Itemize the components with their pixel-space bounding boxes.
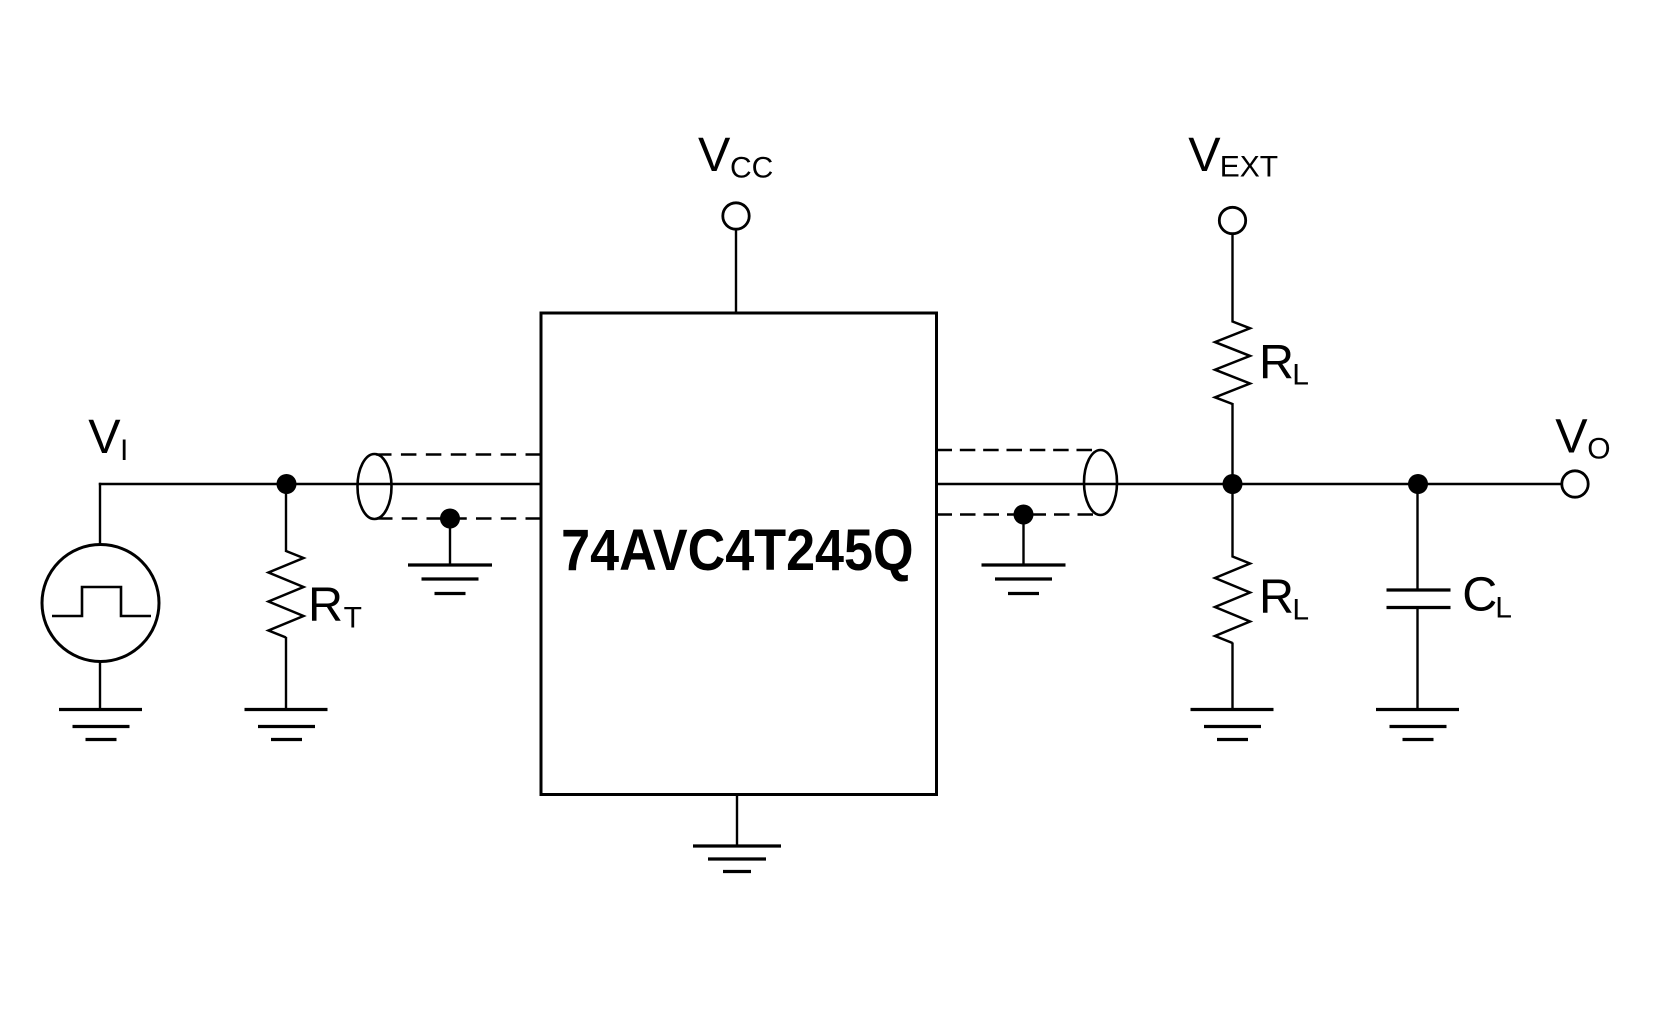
ground under left shield [408, 565, 492, 594]
resistor RT [269, 551, 304, 638]
shield junction dot right [1014, 505, 1034, 525]
wire CL to ground [1416, 609, 1418, 710]
wire VCC to box [735, 229, 737, 313]
wire RL upper to node B [1231, 403, 1233, 485]
wire box bottom to ground [736, 795, 738, 847]
svg-text:C: C [1462, 568, 1497, 622]
wire source to ground [99, 662, 101, 711]
wire input vertical to source [99, 483, 101, 546]
label VEXT [1188, 128, 1278, 183]
ground under source [59, 710, 142, 740]
coax shield right: dashed bottom [937, 513, 1094, 515]
VO terminal circle [1562, 471, 1588, 497]
VCC terminal circle [723, 203, 749, 229]
shield junction dot left [440, 509, 460, 529]
svg-text:R: R [1259, 335, 1294, 389]
resistor RL lower [1215, 557, 1250, 644]
VEXT terminal circle [1219, 207, 1245, 233]
svg-text:V: V [1555, 410, 1588, 464]
label CL [1462, 568, 1512, 625]
label RL lower [1259, 570, 1309, 627]
node B junction dot [1223, 474, 1243, 494]
coax end ellipse left [358, 454, 392, 519]
svg-text:L: L [1292, 594, 1309, 627]
svg-text:R: R [308, 578, 343, 632]
wire output horizontal [937, 483, 1562, 485]
svg-text:V: V [1188, 128, 1221, 182]
svg-text:O: O [1587, 432, 1610, 465]
label RT [308, 578, 362, 635]
coax shield left: dashed top [376, 453, 541, 455]
svg-text:R: R [1259, 570, 1294, 624]
wire node C to CL [1416, 484, 1418, 589]
wire RT to ground [285, 637, 287, 710]
coax shield right: dashed top [937, 449, 1093, 451]
pulse source V1 [42, 545, 159, 662]
ground under RL lower [1191, 710, 1274, 740]
svg-text:CC: CC [730, 152, 773, 185]
ground under CL [1376, 710, 1459, 740]
wire shield left to ground [449, 519, 451, 566]
svg-text:L: L [1292, 359, 1309, 392]
svg-text:EXT: EXT [1220, 150, 1278, 183]
wire node B to RL lower [1231, 484, 1233, 558]
label VO [1555, 410, 1610, 466]
resistor RL upper [1215, 322, 1250, 405]
wire node A to RT [285, 484, 287, 552]
node C junction dot [1408, 474, 1428, 494]
svg-text:I: I [120, 434, 128, 467]
wire shield right to ground [1022, 515, 1024, 566]
wire VEXT to RL upper [1231, 234, 1233, 323]
ground under RT [245, 710, 328, 740]
ground under right shield [982, 565, 1066, 594]
svg-text:74AVC4T245Q: 74AVC4T245Q [561, 517, 913, 582]
coax end ellipse right [1084, 450, 1117, 515]
label VCC [698, 128, 773, 185]
ground under box [693, 846, 781, 872]
wire RL lower to ground [1231, 643, 1233, 711]
coax shield left: dashed bottom [377, 517, 541, 519]
label RL upper [1259, 335, 1309, 391]
label VI [88, 410, 128, 467]
node A junction dot [277, 474, 297, 494]
svg-text:L: L [1495, 591, 1512, 624]
wire input horizontal [99, 483, 541, 485]
IC U1 74AVC4T245Q box [541, 313, 937, 795]
svg-text:V: V [88, 410, 121, 464]
svg-text:V: V [698, 128, 731, 182]
capacitor CL [1387, 590, 1451, 608]
svg-text:T: T [344, 602, 362, 635]
